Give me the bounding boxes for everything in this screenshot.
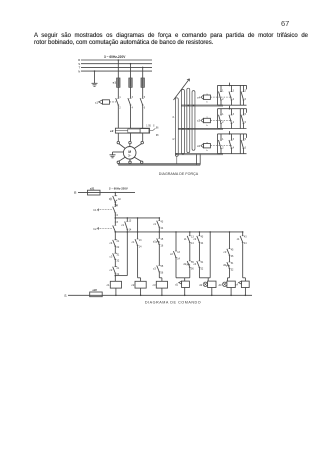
svg-text:13: 13: [129, 220, 132, 223]
svg-text:2: 2: [222, 121, 224, 124]
svg-text:N: N: [78, 69, 80, 73]
svg-text:21: 21: [117, 240, 120, 243]
svg-text:c1: c1: [237, 237, 240, 241]
svg-text:1: 1: [117, 204, 119, 207]
svg-text:96: 96: [156, 127, 159, 129]
svg-text:46: 46: [231, 255, 234, 258]
svg-text:e1: e1: [113, 81, 117, 85]
svg-text:c2: c2: [197, 144, 201, 148]
svg-text:5: 5: [144, 97, 146, 99]
svg-text:c3: c3: [197, 119, 201, 123]
svg-text:c2: c2: [131, 283, 134, 287]
svg-text:45: 45: [231, 249, 234, 252]
svg-text:c4: c4: [110, 241, 113, 245]
svg-text:c1: c1: [184, 237, 187, 241]
svg-text:44: 44: [244, 242, 247, 245]
svg-text:51: 51: [231, 262, 234, 265]
svg-text:b2: b2: [94, 227, 97, 231]
svg-text:2: 2: [222, 146, 224, 149]
svg-text:b: b: [207, 125, 209, 127]
svg-text:b0: b0: [118, 198, 121, 201]
svg-text:d2: d2: [199, 283, 202, 287]
svg-text:c3: c3: [153, 283, 156, 287]
svg-text:98: 98: [156, 135, 159, 137]
svg-text:d3: d3: [219, 283, 222, 287]
svg-text:6: 6: [245, 121, 247, 124]
svg-text:14: 14: [191, 242, 194, 245]
svg-text:52: 52: [201, 267, 204, 270]
svg-text:6: 6: [144, 107, 146, 109]
svg-text:3 ~ 60Hz-220V: 3 ~ 60Hz-220V: [104, 55, 126, 59]
svg-text:1 95: 1 95: [146, 126, 151, 128]
svg-text:d3: d3: [223, 263, 226, 267]
svg-text:6: 6: [245, 146, 247, 149]
svg-text:4: 4: [233, 98, 235, 101]
svg-text:31: 31: [117, 253, 120, 256]
svg-text:c3: c3: [153, 267, 156, 271]
svg-text:3: 3: [233, 90, 235, 93]
svg-text:16: 16: [161, 244, 164, 247]
svg-text:c4: c4: [197, 95, 201, 99]
svg-text:c3: c3: [110, 255, 113, 259]
svg-text:43: 43: [161, 221, 164, 224]
svg-text:3: 3: [132, 97, 134, 99]
svg-text:14: 14: [139, 246, 142, 249]
svg-text:c1: c1: [95, 100, 99, 104]
svg-text:14: 14: [177, 257, 180, 260]
svg-text:21: 21: [117, 267, 120, 270]
svg-text:56: 56: [191, 267, 194, 270]
svg-text:R: R: [74, 191, 77, 195]
svg-text:2: 2: [222, 98, 224, 101]
svg-text:52: 52: [231, 268, 234, 271]
svg-text:3: 3: [233, 113, 235, 116]
svg-text:13: 13: [139, 239, 142, 242]
svg-text:1: 1: [222, 90, 224, 93]
svg-text:5: 5: [245, 138, 247, 141]
svg-text:4: 4: [132, 107, 134, 109]
svg-text:5: 5: [245, 113, 247, 116]
svg-text:51: 51: [201, 261, 204, 264]
svg-text:32: 32: [117, 259, 120, 262]
svg-text:b1: b1: [94, 208, 97, 212]
svg-text:55: 55: [161, 265, 164, 268]
svg-text:44: 44: [161, 227, 164, 230]
svg-text:4: 4: [233, 146, 235, 149]
svg-text:S: S: [64, 294, 67, 298]
svg-text:DIAGRAMA DE COMANDO: DIAGRAMA DE COMANDO: [145, 300, 201, 304]
svg-text:3: 3: [117, 221, 119, 224]
svg-text:15: 15: [161, 238, 164, 241]
svg-text:22: 22: [117, 246, 120, 249]
svg-text:43: 43: [244, 236, 247, 239]
svg-text:56: 56: [161, 272, 164, 275]
svg-text:2 ~ 60Hz-220V: 2 ~ 60Hz-220V: [109, 187, 128, 191]
svg-text:b: b: [207, 150, 209, 152]
svg-text:e21: e21: [90, 186, 95, 190]
svg-text:c1: c1: [107, 283, 110, 287]
svg-text:2: 2: [119, 107, 121, 109]
svg-text:c1: c1: [132, 240, 135, 244]
svg-text:1: 1: [222, 138, 224, 141]
svg-text:6: 6: [245, 98, 247, 101]
svg-text:2: 2: [117, 214, 119, 217]
svg-text:3: 3: [233, 138, 235, 141]
svg-text:DIAGRAMA DE FORÇA: DIAGRAMA DE FORÇA: [159, 172, 199, 176]
svg-text:3~: 3~: [128, 153, 132, 157]
svg-text:c2: c2: [193, 237, 196, 241]
svg-text:1: 1: [119, 97, 121, 99]
svg-text:c1: c1: [153, 222, 156, 226]
svg-text:r2: r2: [172, 138, 175, 141]
svg-text:d2: d2: [183, 262, 186, 266]
svg-text:c4: c4: [193, 262, 196, 266]
svg-text:c1: c1: [121, 223, 124, 227]
svg-text:d1: d1: [175, 283, 178, 287]
svg-text:13: 13: [177, 251, 180, 254]
svg-text:43: 43: [201, 236, 204, 239]
svg-text:c2: c2: [170, 252, 173, 256]
svg-text:e2: e2: [110, 129, 114, 133]
svg-text:14: 14: [129, 229, 132, 232]
svg-text:c2: c2: [110, 268, 113, 272]
svg-text:d1: d1: [153, 239, 156, 243]
svg-text:4: 4: [233, 121, 235, 124]
svg-text:c3: c3: [224, 250, 227, 254]
svg-text:44: 44: [201, 242, 204, 245]
svg-text:5: 5: [245, 90, 247, 93]
svg-text:b: b: [207, 102, 209, 104]
svg-text:1: 1: [222, 113, 224, 116]
svg-text:e22: e22: [93, 288, 98, 292]
svg-text:c4: c4: [235, 283, 238, 287]
svg-text:r1: r1: [172, 116, 175, 119]
